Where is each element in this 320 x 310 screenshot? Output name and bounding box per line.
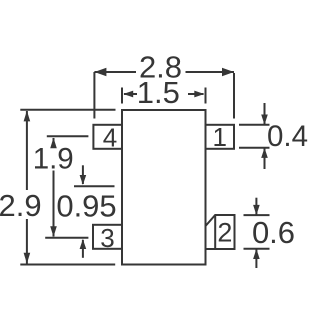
dimension 2.9 dim line: [26, 111, 28, 264]
svg-text:0.4: 0.4: [267, 120, 308, 153]
dimension 2.8 dim line: [94, 71, 234, 73]
dimension 0.4 extension lines: [239, 125, 270, 148]
dimension 2.9 bottom arrowhead: [24, 253, 31, 264]
dimension 1.9 bottom arrowhead: [50, 226, 57, 237]
dimension 1.5 end bars: [122, 88, 206, 104]
svg-text:3: 3: [100, 223, 114, 253]
dimension 0.4 arrow leader lines: [264, 103, 266, 169]
dimension 0.4 lower arrowhead: [261, 148, 268, 158]
svg-text:2: 2: [217, 217, 232, 247]
pin 3: [93, 225, 122, 249]
dimension 2.8 extension lines: [94, 72, 234, 119]
dimension 1.5 left arrowhead: [123, 91, 133, 98]
svg-text:2.9: 2.9: [0, 188, 42, 223]
dimension 1.5 dim line: [124, 93, 204, 95]
dimension 0.95 up arrowhead: [80, 239, 87, 249]
dimension 1.9 dim line: [53, 138, 55, 237]
svg-text:1.9: 1.9: [33, 142, 74, 175]
dimension 0.6 extension lines: [244, 215, 270, 249]
pin 4: [93, 125, 122, 149]
svg-text:4: 4: [103, 122, 117, 152]
dimension 2.8 left arrowhead: [94, 68, 106, 76]
package body: [122, 110, 206, 265]
dimension 2.9 extension lines: [20, 110, 115, 265]
svg-text:0.6: 0.6: [252, 215, 295, 250]
svg-text:1.5: 1.5: [137, 75, 180, 110]
dimension 0.4 upper arrowhead: [261, 115, 268, 125]
dimension 1.9 extension line (pin 4 centerline): [47, 135, 89, 137]
dimension 0.95 extension line (pin 3 centerline): [45, 237, 88, 239]
svg-text:1: 1: [213, 122, 227, 152]
dimension 0.6 lower arrowhead: [253, 249, 260, 259]
dimension 0.95 arrow leader lines: [82, 165, 84, 257]
dimension 1.9 top arrowhead: [50, 138, 57, 149]
dimension 0.95 center extension line: [74, 185, 115, 187]
svg-text:0.95: 0.95: [56, 188, 116, 223]
dimension 1.5 right arrowhead: [194, 91, 204, 98]
pin 2: [206, 215, 235, 249]
dimension 0.6 upper arrowhead: [253, 205, 260, 215]
dimension 2.9 top arrowhead: [24, 111, 31, 122]
dimension 0.95 down arrowhead: [80, 175, 87, 185]
dimension 2.8 right arrowhead: [222, 68, 234, 76]
dimension 0.6 arrow leader lines: [255, 198, 257, 268]
pin 1: [206, 125, 235, 149]
